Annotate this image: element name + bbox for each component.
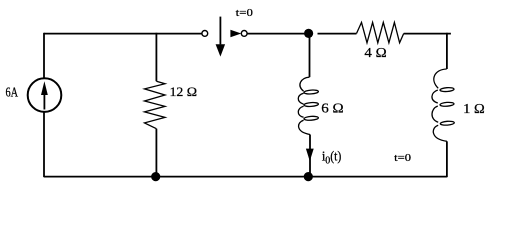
wire left vertical upper [43, 33, 45, 78]
inductor L1 6ohm [298, 77, 318, 134]
svg-text:6A: 6A [6, 84, 19, 99]
svg-text:1 Ω: 1 Ω [463, 102, 485, 117]
wire 12ohm branch lower [155, 129, 157, 178]
wire right vertical upper [446, 33, 448, 69]
wire node-to-resistor segment [318, 33, 357, 35]
wire 12ohm branch upper [155, 33, 157, 81]
wire top-left segment [44, 33, 202, 35]
svg-text:(t): (t) [330, 149, 341, 164]
svg-text:t=0: t=0 [394, 152, 411, 164]
wire 6ohm branch upper [309, 33, 311, 77]
wire resistor-to-corner segment [404, 33, 451, 35]
node C junction dot bottom right [304, 172, 313, 181]
wire left vertical lower [43, 113, 45, 178]
svg-text:4 Ω: 4 Ω [364, 45, 386, 60]
switch SW1 [202, 17, 247, 57]
node B junction dot bottom left [151, 172, 160, 181]
resistor R2 4ohm [357, 22, 404, 42]
wire 6ohm branch lower [309, 135, 311, 178]
node A junction dot top [304, 29, 313, 38]
wire bottom [44, 176, 447, 178]
svg-text:t=0: t=0 [236, 7, 254, 19]
resistor R1 12ohm [145, 81, 166, 129]
current arrow i0(t) [306, 149, 314, 162]
svg-text:6 Ω: 6 Ω [321, 101, 343, 116]
svg-text:12 Ω: 12 Ω [170, 84, 198, 99]
current source I1 6A [28, 78, 62, 112]
wire switch-to-node segment [247, 33, 304, 35]
inductor L2 1ohm [432, 69, 454, 141]
wire right vertical lower [446, 141, 448, 177]
